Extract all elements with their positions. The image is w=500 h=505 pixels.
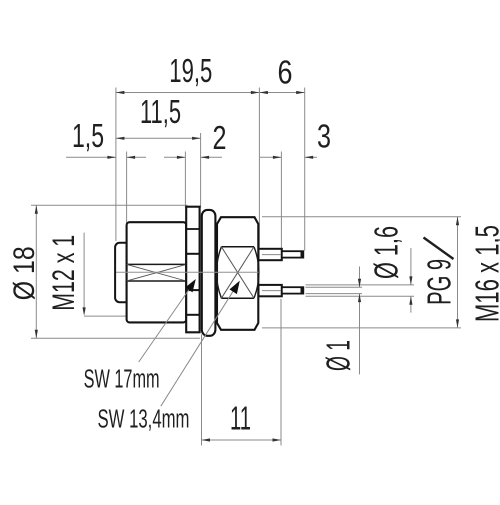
upper pin centerline	[262, 254, 281, 256]
svg-text:2: 2	[213, 119, 227, 156]
thread cross	[127, 264, 187, 281]
dimension 3	[260, 118, 331, 159]
extension line x=126.6	[126, 152, 128, 242]
svg-text:1,5: 1,5	[72, 117, 104, 154]
hex nut SW13.4	[217, 217, 258, 330]
svg-text:19,5: 19,5	[169, 52, 212, 89]
dimension 2	[164, 119, 227, 159]
svg-text:Ø 1,6: Ø 1,6	[368, 226, 405, 279]
svg-text:3: 3	[317, 118, 331, 155]
svg-text:SW 13,4mm: SW 13,4mm	[98, 404, 190, 434]
svg-text:M16 x 1,5: M16 x 1,5	[469, 225, 500, 322]
dimension 11	[202, 299, 282, 446]
PG9 M16 extension lines	[262, 216, 461, 218]
dimension 19,5	[116, 52, 260, 94]
svg-text:11,5: 11,5	[140, 93, 181, 130]
svg-text:11: 11	[230, 400, 251, 437]
svg-text:M12 x 1: M12 x 1	[45, 235, 81, 311]
lower pin end cap	[301, 287, 304, 294]
dimension D1,6	[306, 226, 415, 313]
dimension 1,5	[66, 117, 146, 159]
upper pin end cap	[301, 251, 304, 258]
extension line x=115.9	[115, 88, 117, 242]
dimension 11,5	[116, 93, 201, 140]
extension line x=304.7	[304, 88, 306, 251]
upper pin base	[259, 249, 282, 260]
dimension D1	[306, 267, 363, 375]
O-ring	[202, 210, 216, 336]
lower pin centerline	[262, 290, 281, 292]
dimension D18 left	[8, 205, 200, 338]
label M12 x 1	[45, 233, 127, 317]
lower pin tip	[282, 287, 304, 293]
thread band lines	[127, 263, 187, 265]
hex nut cross	[221, 247, 254, 298]
svg-text:Ø 1: Ø 1	[320, 340, 357, 371]
leader SW 13,4mm	[98, 281, 240, 434]
lower pin base	[259, 285, 282, 296]
dimension 6	[259, 53, 304, 94]
connector cylinder M12 body	[127, 222, 187, 322]
centerline	[116, 271, 259, 273]
connector flange tip	[115, 243, 127, 302]
hex nut facet lines	[221, 246, 254, 248]
svg-text:6: 6	[278, 53, 293, 90]
extension line x=185.4	[184, 152, 186, 208]
svg-text:SW 17mm: SW 17mm	[84, 364, 160, 394]
svg-text:Ø 18: Ø 18	[8, 246, 41, 300]
hex nut left arc	[217, 247, 222, 298]
hex nut right arc	[254, 247, 259, 298]
hex flange SW17 strip	[186, 207, 199, 333]
dimension PG9 / M16x1,5	[421, 217, 500, 328]
extension line x=200.6	[200, 133, 202, 208]
upper pin tip	[282, 251, 304, 257]
svg-text:PG 9: PG 9	[421, 259, 458, 305]
extension line x=281.4	[280, 152, 282, 251]
extension line x=259.4	[258, 88, 260, 248]
hex flange facet lines	[186, 228, 199, 230]
leader SW 17mm	[84, 279, 196, 394]
